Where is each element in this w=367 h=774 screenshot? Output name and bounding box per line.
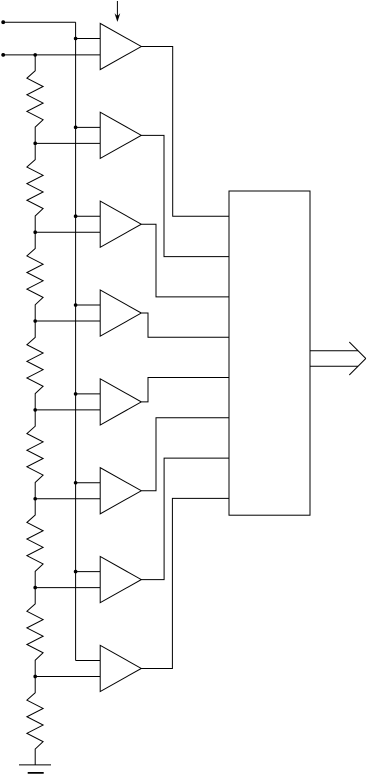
- wire Vin bus to comparator U2 non-inverting input: [76, 126, 101, 128]
- node ladder tap 1 junction: [33, 142, 37, 146]
- wire comparator U3 output to encoder input 3: [141, 224, 229, 297]
- node Vin bus junction 2: [74, 126, 78, 130]
- resistor R4: [27, 321, 43, 410]
- node Vin bus junction 7: [74, 570, 78, 574]
- wire comparator U8 output to encoder input 8: [141, 498, 229, 668]
- wire comparator U5 output to encoder input 5: [141, 378, 229, 402]
- node Vin bus junction 5: [74, 392, 78, 396]
- node ladder tap 3 junction: [33, 319, 37, 323]
- op-amp U1 comparator: [100, 23, 141, 69]
- op-amp U4 comparator: [100, 290, 141, 336]
- node ladder tap 0 junction: [33, 53, 37, 57]
- wire Vin bus to comparator U7 non-inverting input: [76, 571, 101, 573]
- wire Vin bus to comparator U8 non-inverting input: [76, 659, 101, 661]
- wire Vin bus to comparator U4 non-inverting input: [76, 304, 101, 306]
- op-amp U5 comparator: [100, 379, 141, 425]
- wire tap 3 to comparator U4 inverting input: [35, 320, 100, 322]
- wire tap 7 to comparator U8 inverting input: [35, 675, 100, 677]
- op-amp U3 comparator: [100, 201, 141, 247]
- wire Vin bus to comparator U1 non-inverting input: [76, 38, 101, 40]
- node ladder tap 7 junction: [33, 675, 37, 679]
- wire Vref terminal to comparator U1 inverting input: [3, 54, 100, 56]
- resistor R8: [27, 676, 43, 764]
- op-amp U2 comparator: [100, 112, 141, 158]
- wire comparator U7 output to encoder input 7: [141, 458, 229, 579]
- wire comparator U1 output to encoder input 1: [141, 47, 229, 217]
- wire tap 5 to comparator U6 inverting input: [35, 498, 100, 500]
- op-amp U8 comparator: [100, 645, 141, 691]
- clock arrow pointing into comparator U1: [115, 1, 120, 21]
- wire Vin bus to comparator U6 non-inverting input: [76, 482, 101, 484]
- op-amp U7 comparator: [100, 557, 141, 603]
- resistor R2: [27, 143, 43, 232]
- node Vin bus junction 4: [74, 303, 78, 307]
- op-amp U6 comparator: [100, 468, 141, 514]
- node ladder tap 6 junction: [33, 586, 37, 590]
- resistor R6: [27, 499, 43, 588]
- resistor R5: [27, 410, 43, 499]
- node ladder tap 5 junction: [33, 497, 37, 501]
- node ladder tap 2 junction: [33, 230, 37, 234]
- output bus arrow: [310, 342, 366, 375]
- wire Vin terminal to bus: [3, 21, 75, 23]
- node Vin bus junction 1: [74, 37, 78, 41]
- node ladder tap 4 junction: [33, 408, 37, 412]
- resistor R3: [27, 232, 43, 321]
- node Vref input terminal: [1, 53, 5, 57]
- wire comparator U2 output to encoder input 2: [141, 135, 229, 256]
- ground: [19, 765, 51, 773]
- wire Vin bus to comparator U3 non-inverting input: [76, 215, 101, 217]
- wire tap 4 to comparator U5 inverting input: [35, 409, 100, 411]
- wire tap 6 to comparator U7 inverting input: [35, 587, 100, 589]
- wire tap 2 to comparator U3 inverting input: [35, 231, 100, 233]
- wire Vin bus to comparator U5 non-inverting input: [76, 393, 101, 395]
- wire Vin bus vertical: [75, 22, 77, 660]
- node Vin bus junction 6: [74, 481, 78, 485]
- resistor R1: [27, 55, 43, 144]
- encoder block U9: [229, 191, 310, 515]
- wire comparator U4 output to encoder input 4: [141, 313, 229, 337]
- node Vin bus junction 3: [74, 214, 78, 218]
- node Vin input terminal: [1, 20, 5, 24]
- wire comparator U6 output to encoder input 6: [141, 418, 229, 491]
- wire tap 1 to comparator U2 inverting input: [35, 142, 100, 144]
- resistor R7: [27, 588, 43, 677]
